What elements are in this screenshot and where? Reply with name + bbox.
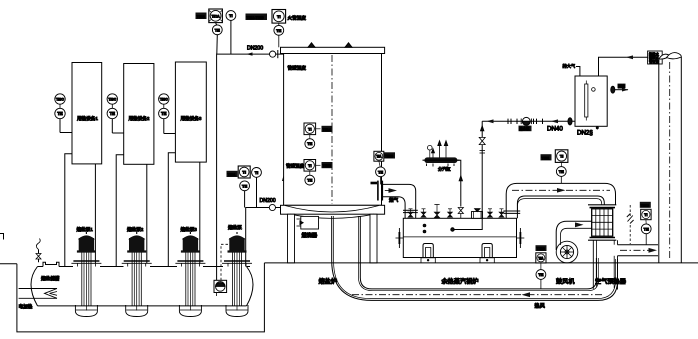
svg-text:TE13-TE19: TE13-TE19 xyxy=(246,16,263,20)
svg-text:TE11: TE11 xyxy=(542,156,550,160)
svg-text:DN2§: DN2§ xyxy=(577,130,593,137)
label tube wall temp upper (管壁温度) xyxy=(288,65,307,72)
svg-text:用热设备3: 用热设备3 xyxy=(181,115,202,122)
svg-text:用热设备1: 用热设备1 xyxy=(77,115,98,122)
boiler right end cap xyxy=(517,228,525,248)
tag label TE14 xyxy=(322,126,333,132)
label fire tube temp (火管温度) xyxy=(288,15,307,22)
supply pipe pump3 to equipment 3 xyxy=(199,162,201,263)
svg-text:TI: TI xyxy=(242,170,246,175)
left edge break tick xyxy=(0,234,4,240)
label blower (鼓风机) xyxy=(556,278,575,286)
boiler top valve 6 xyxy=(499,209,504,217)
svg-text:火管温度: 火管温度 xyxy=(288,15,307,22)
instrument TI square upper (furnace) xyxy=(304,123,321,135)
feedwater drop pipe into boiler with internal sparge dot xyxy=(451,121,485,231)
hot air duct inner wall lines xyxy=(334,216,616,299)
svg-text:熔盐泵2: 熔盐泵2 xyxy=(127,226,144,233)
label hot air (热风) xyxy=(535,302,546,310)
svg-text:TIA: TIA xyxy=(376,155,382,159)
molten salt furnace vessel body xyxy=(284,54,382,206)
svg-text:TI: TI xyxy=(644,213,647,217)
note text box (top right) xyxy=(648,51,663,64)
tag label above TIA (black, hot air) xyxy=(536,245,547,251)
feedwater flow arrow left 1 xyxy=(487,119,494,123)
supply pipe pump2 to equipment 2 xyxy=(146,164,148,263)
label burner (燃烧器) xyxy=(302,231,318,239)
molten salt pump 4 (熔盐泵) xyxy=(222,224,252,317)
sensor TE circle (fire tube), line to furnace top xyxy=(274,23,284,47)
heat user equipment 2 (用热设备2) xyxy=(124,64,154,165)
tag label feedwater pump (black 给水泵) xyxy=(519,126,532,132)
DN40 size label xyxy=(547,126,563,133)
controller TICA (square with circle) xyxy=(209,9,223,23)
steam riser from boiler to manifold xyxy=(457,160,463,206)
instrument TI square (stack inlet) xyxy=(641,209,651,219)
tag label TE08 (black) xyxy=(196,13,207,20)
boiler gauge taps (dots on shell) xyxy=(423,224,426,233)
tank label (熔盐储槽) xyxy=(41,275,60,282)
duct flange at boiler flue outlet xyxy=(503,211,520,213)
return pipe from equipment 3 down to storage tank xyxy=(168,153,175,267)
furnace top cover xyxy=(281,47,385,53)
lifting lug right xyxy=(345,43,352,48)
DN200 size label (supply header) xyxy=(247,46,263,52)
ground line left stub xyxy=(0,263,17,265)
svg-text:分汽缸: 分汽缸 xyxy=(438,166,451,173)
svg-text:熔盐泵3: 熔盐泵3 xyxy=(181,226,198,233)
boiler relief device xyxy=(472,209,483,219)
indicator TI circle beside TICA xyxy=(226,11,236,54)
dashed line with break symbol near preheater xyxy=(627,205,634,244)
tank overflow outlet right xyxy=(611,84,629,94)
svg-text:熔盐储槽: 熔盐储槽 xyxy=(41,275,60,282)
burner housing xyxy=(297,216,319,229)
label air preheater (空气预热器) xyxy=(595,278,627,286)
tank pit outline xyxy=(17,263,265,332)
feedwater pump circle xyxy=(521,117,531,125)
svg-text:烟气: 烟气 xyxy=(389,197,399,204)
svg-text:电加热: 电加热 xyxy=(19,303,33,310)
instrument TI square (fire tube temperature) xyxy=(272,10,286,24)
blower fan casing and impeller xyxy=(556,241,578,263)
tag label TE13-TE19 (black, fire tube temp) xyxy=(246,14,268,21)
boiler top valve 1 xyxy=(408,209,413,217)
manifold outlet risers with arrows xyxy=(432,141,448,158)
boiler top valve 4 xyxy=(448,209,453,217)
tag label TE15 xyxy=(322,162,333,168)
lifting lug left xyxy=(308,43,315,48)
feedwater tank shell xyxy=(575,76,607,126)
steam manifold (分汽缸) xyxy=(423,158,460,173)
svg-text:TI: TI xyxy=(560,154,564,159)
feedwater horizontal line xyxy=(482,120,575,122)
black valve at feed tank outlet xyxy=(568,118,572,125)
level controller LIC inside tank xyxy=(214,280,227,296)
hot air duct centerline with left arrow xyxy=(352,292,604,297)
heat user equipment 3 (用热设备3) xyxy=(175,62,206,162)
svg-text:排大气: 排大气 xyxy=(563,63,576,70)
air preheater lower casing walls xyxy=(593,240,617,289)
svg-text:熔盐泵: 熔盐泵 xyxy=(228,224,242,231)
tank manhole neck xyxy=(43,262,59,266)
waste heat boiler shell xyxy=(403,218,516,257)
svg-text:空气预热器: 空气预热器 xyxy=(595,278,627,286)
ground line right section xyxy=(264,262,698,264)
sensor TE below TICA xyxy=(212,23,222,54)
svg-text:溢流: 溢流 xyxy=(618,84,625,89)
instrument stack TISC/TE for equipment 1 xyxy=(55,94,72,133)
svg-text:TI: TI xyxy=(277,14,281,19)
furnace support leg left xyxy=(288,214,295,263)
svg-text:给水泵: 给水泵 xyxy=(519,126,530,131)
hot air duct preheater to furnace (outer walls) xyxy=(332,216,618,300)
duct air preheater to chimney xyxy=(618,245,659,256)
return pipe from tank riser to furnace xyxy=(246,208,284,267)
flow arrow in flue pipe xyxy=(385,188,397,193)
svg-text:余热蒸汽锅炉: 余热蒸汽锅炉 xyxy=(442,278,479,286)
svg-text:TE15: TE15 xyxy=(323,164,331,168)
air preheater core box with matrix xyxy=(592,209,613,236)
air preheater top flange xyxy=(588,205,616,208)
boiler steam outlet valve to manifold xyxy=(458,208,463,219)
reducer symbol on return pipe xyxy=(269,204,275,210)
flue gas pipe furnace to boiler (with elbow down) xyxy=(382,184,416,218)
svg-text:TE10: TE10 xyxy=(537,247,545,251)
tank vent valve with pigtail xyxy=(36,239,41,263)
svg-text:TE01: TE01 xyxy=(228,173,236,177)
svg-text:DN200: DN200 xyxy=(247,46,263,52)
controller TI square (return line) xyxy=(238,166,250,178)
sensor TE circle (stack inlet) xyxy=(641,220,651,245)
svg-text:TE20: TE20 xyxy=(385,154,393,158)
tag label TE20 (black) xyxy=(384,152,395,158)
svg-text:TI: TI xyxy=(308,163,311,168)
supply header pipe DN200 from furnace, drop to tank xyxy=(217,54,284,280)
molten salt pump 2 (熔盐泵2) xyxy=(122,226,152,317)
DN200 size label (return line) xyxy=(260,198,276,204)
sensor TE (return line) xyxy=(240,181,250,208)
svg-text:TE08: TE08 xyxy=(197,15,205,19)
sensor TE circle (boiler flue outlet) xyxy=(556,162,566,183)
tag label TE11 (black) xyxy=(541,154,552,160)
flange pair at furnace flue nozzle xyxy=(371,181,383,201)
sensor TE circle (flue pipe) xyxy=(376,161,386,184)
molten salt storage tank shell (熔盐储槽) xyxy=(31,267,253,306)
svg-text:管自流: 管自流 xyxy=(649,59,660,64)
up arrow on furnace left riser xyxy=(282,176,285,182)
furnace bottom ring xyxy=(281,205,385,218)
label flue gas (烟气) xyxy=(389,197,399,204)
feedwater union ticks xyxy=(508,119,543,124)
flue duct centerline with arrow xyxy=(512,188,610,193)
label waste heat steam boiler (余热蒸汽锅炉) xyxy=(442,278,479,286)
boiler left end cap xyxy=(396,228,404,248)
sensor TE circle upper (furnace) xyxy=(305,135,315,149)
feedwater tank level gauge xyxy=(585,81,588,121)
svg-text:DN40: DN40 xyxy=(547,126,563,133)
instrument stack TISC/TE for equipment 3 xyxy=(159,94,176,134)
svg-text:TE12: TE12 xyxy=(641,204,649,208)
molten salt pump 1 (熔盐泵1) xyxy=(71,226,101,317)
instrument TI square lower (furnace) xyxy=(304,160,321,172)
controller TIA square (flue pipe) xyxy=(374,151,384,161)
svg-text:TI: TI xyxy=(308,126,311,131)
svg-text:TE14: TE14 xyxy=(323,128,331,132)
flue duct boiler to air preheater (inverted U) xyxy=(506,183,615,218)
instrument TI square (boiler flue outlet) xyxy=(555,150,568,163)
label tube wall temp lower (管壁温度) xyxy=(286,163,305,170)
DN25 size label xyxy=(577,130,593,137)
svg-text:用热设备2: 用热设备2 xyxy=(129,115,150,122)
tag label TE12 (black) xyxy=(640,202,651,208)
svg-text:TICA: TICA xyxy=(212,14,220,18)
return pipe from equipment 1 down to storage tank xyxy=(65,154,72,267)
return pipe from equipment 2 down to storage tank xyxy=(116,155,124,267)
furnace support leg right xyxy=(370,214,377,263)
svg-text:管壁温度: 管壁温度 xyxy=(286,163,305,170)
controller TIA square (hot air duct) xyxy=(536,253,546,263)
molten salt pump 3 (熔盐泵3) xyxy=(175,226,205,317)
svg-text:熔盐泵1: 熔盐泵1 xyxy=(77,226,94,233)
boiler top valve 5 xyxy=(488,209,493,217)
chimney stack xyxy=(659,53,682,263)
boiler support leg left xyxy=(421,244,435,263)
svg-text:热风: 热风 xyxy=(535,302,546,310)
electric heater element xyxy=(19,289,57,299)
vent pipe to atmosphere + label 排大气 xyxy=(563,63,580,77)
air preheater bottom flange xyxy=(588,238,616,241)
svg-text:TIA: TIA xyxy=(538,256,544,260)
heat user equipment 1 (用热设备1) xyxy=(72,63,102,164)
tank drain stub xyxy=(596,126,598,129)
svg-text:管壁温度: 管壁温度 xyxy=(288,65,307,72)
tag label TE01 (black) xyxy=(227,171,238,177)
boiler support leg right xyxy=(480,244,494,263)
svg-text:DN200: DN200 xyxy=(260,198,276,204)
coupling flange on down pipe xyxy=(403,210,418,212)
sensor TE circle (hot air duct) xyxy=(536,263,546,289)
label molten salt furnace (熔盐炉) xyxy=(319,278,338,286)
manifold pressure gauge xyxy=(428,145,433,157)
reducer symbol on supply header at furnace nozzle xyxy=(270,50,278,58)
furnace centerline xyxy=(331,55,333,204)
dashed interlock line LIC to pump4 xyxy=(221,244,230,280)
feedwater flow arrow left 2 xyxy=(551,119,558,123)
sensor TE circle lower (furnace) xyxy=(305,171,315,185)
fan outlet duct to preheater with arrow xyxy=(556,221,592,250)
supply pipe pump1 to equipment 1 xyxy=(94,164,96,263)
label electric heating (电加热) xyxy=(19,303,33,310)
flow arrow on supply header xyxy=(247,52,253,55)
indicator TI circle (return line) xyxy=(252,168,262,208)
condensate/steam return line from note box to tank xyxy=(599,55,648,76)
svg-text:燃烧器: 燃烧器 xyxy=(302,231,318,239)
boiler top valve 3 (taller with stem) xyxy=(434,205,440,218)
feedwater tank small gauge circle xyxy=(592,88,596,92)
boiler top valve 2 xyxy=(421,209,426,217)
instrument stack TISC/TE for equipment 2 xyxy=(107,94,124,133)
svg-text:鼓风机: 鼓风机 xyxy=(556,278,575,286)
